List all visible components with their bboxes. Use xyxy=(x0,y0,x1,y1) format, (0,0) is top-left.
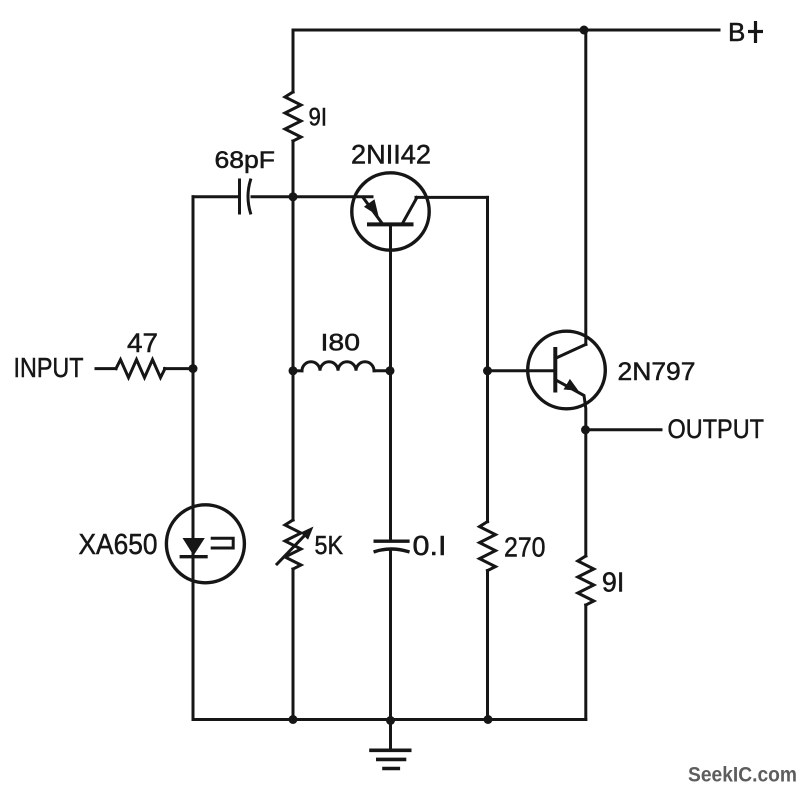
svg-text:9I: 9I xyxy=(309,104,328,132)
svg-text:2NII42: 2NII42 xyxy=(351,140,431,170)
svg-text:9I: 9I xyxy=(602,567,625,598)
svg-text:OUTPUT: OUTPUT xyxy=(668,414,765,444)
svg-text:I80: I80 xyxy=(321,330,361,357)
svg-text:47: 47 xyxy=(127,328,158,358)
svg-text:0.I: 0.I xyxy=(413,530,447,561)
svg-text:2N797: 2N797 xyxy=(618,358,696,386)
svg-text:5K: 5K xyxy=(315,530,344,560)
svg-text:SeekIC.com: SeekIC.com xyxy=(688,764,797,787)
svg-text:XA650: XA650 xyxy=(79,529,158,561)
svg-text:B: B xyxy=(728,17,745,47)
svg-text:INPUT: INPUT xyxy=(14,352,84,383)
svg-text:270: 270 xyxy=(504,532,546,563)
svg-text:68pF: 68pF xyxy=(215,147,276,174)
